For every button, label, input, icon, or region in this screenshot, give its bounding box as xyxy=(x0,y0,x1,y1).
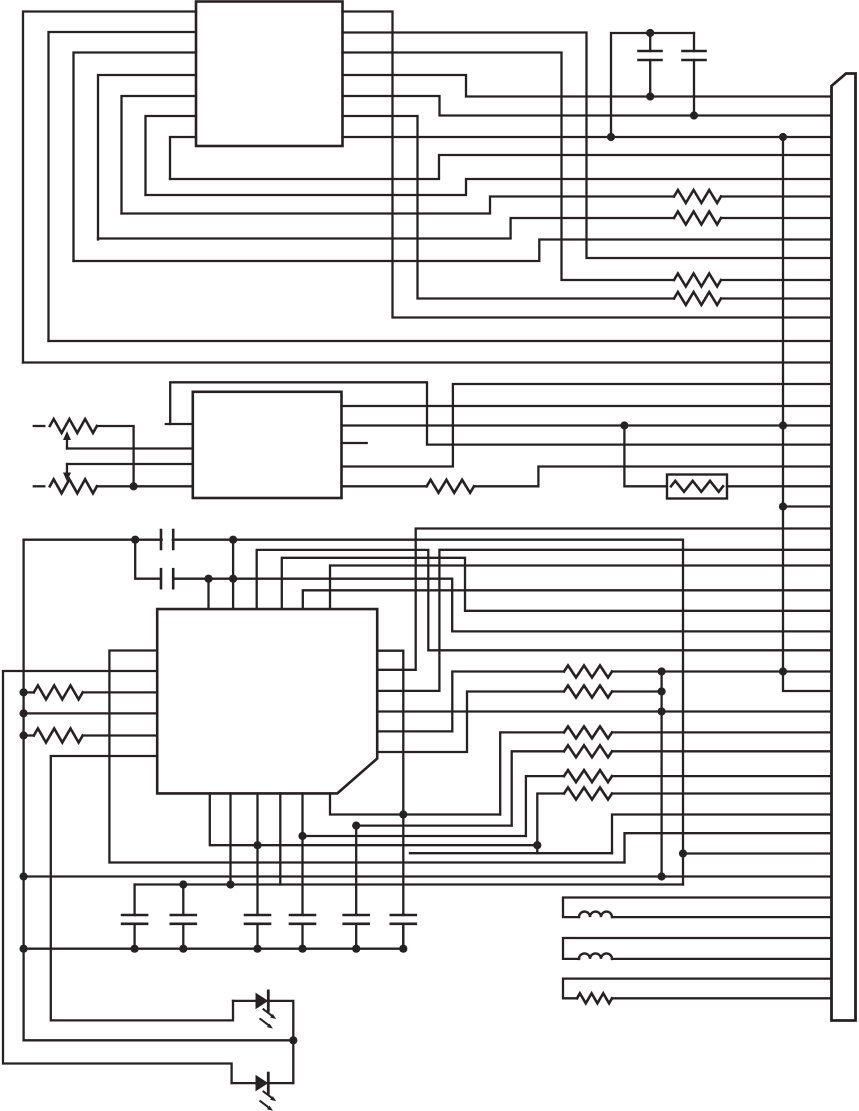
resistor R2 xyxy=(674,212,721,225)
capacitor C7 plates xyxy=(245,915,270,949)
wire cap net top rail xyxy=(611,33,694,137)
capacitor C3 xyxy=(161,530,173,549)
node rail row876 dot xyxy=(20,872,28,880)
wire row853 link xyxy=(410,852,612,854)
wire pin230 lead xyxy=(229,793,231,884)
inductor L2 xyxy=(579,953,612,959)
wire U1 left pin 7 U-loop xyxy=(170,137,196,179)
wire branch row425 down to R6 xyxy=(624,426,667,487)
wire row814 riser to connector xyxy=(612,815,832,854)
wire R1 right lead xyxy=(721,195,832,197)
node Va row876 dot xyxy=(658,872,666,880)
wire R4 right lead xyxy=(721,297,832,299)
wire U1 pin R3 route xyxy=(343,53,675,281)
node cap2 row884 dot xyxy=(179,880,187,888)
wire R12 row and down-leg xyxy=(537,794,564,854)
IC U3 (main processor) xyxy=(157,609,377,793)
wire cap bank ground rail xyxy=(24,948,404,950)
wire R6 right lead xyxy=(727,485,832,487)
wire U2 pin y486 lead xyxy=(342,485,427,487)
capacitor C1 xyxy=(639,33,662,97)
wire R7 right lead xyxy=(612,670,832,672)
resistor R4 xyxy=(674,292,721,305)
wire row814 pin330 to R9 leg xyxy=(330,793,500,814)
wire U2 pin stub right y443 xyxy=(342,442,367,444)
wire U3 top pin x330 row565 xyxy=(330,566,832,610)
wire U3 right pin p5 up to row671 xyxy=(377,672,564,732)
node C2 bottom on row115 xyxy=(690,111,698,119)
wire U1 pin R5 route xyxy=(343,96,832,116)
node C3 row dot x233 xyxy=(229,536,237,544)
potentiometer VR1 body xyxy=(50,419,97,433)
wire U2 pin stub left y424 xyxy=(166,423,193,425)
wire R14 rail stub xyxy=(24,734,34,736)
led D2 xyxy=(256,1073,269,1093)
resistor R14 lead xyxy=(83,734,158,736)
capacitor C10 plates xyxy=(391,915,416,949)
node R13 rail dot xyxy=(20,688,28,696)
node C10 rail dot xyxy=(399,945,407,953)
wire U3 right pin p2 up to row528 xyxy=(377,529,831,670)
wire hairpin L2 xyxy=(563,938,832,959)
wire U3 right pin p6 up to row691 xyxy=(377,692,564,753)
wire hairpin L1 xyxy=(563,898,832,918)
wire R8 right lead xyxy=(612,690,662,692)
wire U2 pin row y406 to connector xyxy=(342,405,832,407)
wire R2 right lead xyxy=(721,217,832,219)
node cap5 top dot xyxy=(352,822,360,830)
wire C3 gap mask xyxy=(163,537,172,543)
node Va row712 dot xyxy=(658,707,666,715)
led D1 xyxy=(256,991,269,1011)
wire cap5 top row825 xyxy=(356,824,512,826)
wire rail bottom row1040 xyxy=(24,1039,294,1041)
wire U1 pin R1 route xyxy=(343,12,832,318)
capacitor C5 plates xyxy=(122,915,147,949)
node C5 rail dot xyxy=(131,945,139,953)
wire pin209 row845 xyxy=(210,793,538,845)
wire cap6 lead bottom xyxy=(402,924,404,949)
wire cap2 lead xyxy=(182,885,184,916)
wire U1 left pin 5 U-loop xyxy=(122,96,197,214)
resistor R1 xyxy=(674,190,721,203)
node VR1 to row486 xyxy=(130,482,138,490)
wire cap3 lead xyxy=(256,793,258,915)
wire row884 cap1-cap2 xyxy=(135,883,683,885)
resistor R5 xyxy=(427,480,474,493)
wire U1 pin R4 route xyxy=(343,75,832,97)
wire U2 pin y466 up-over route xyxy=(342,384,832,467)
node R8 row Va dot xyxy=(658,687,666,695)
wire U3 top pin x302 row590 xyxy=(303,590,832,609)
wire U2 top-left loop xyxy=(170,382,831,444)
wire R11 right lead xyxy=(612,775,832,777)
resistor R10 xyxy=(564,745,612,757)
resistor R15 xyxy=(577,993,612,1003)
wire cap4 pin lead xyxy=(301,793,303,915)
wire cap5 lead xyxy=(355,826,357,915)
wire R15 right lead xyxy=(612,997,832,999)
wire R9 row and down-leg xyxy=(500,732,564,814)
node C7 rail dot xyxy=(253,945,261,953)
capacitor C9 plates xyxy=(344,915,369,949)
wire C3 supply row xyxy=(24,540,683,885)
node R12 leg row845 dot xyxy=(533,841,541,849)
potentiometer VR1 wiper arrow xyxy=(63,431,71,449)
wire staircase step y213 to y196 xyxy=(122,197,675,214)
node pin230 row884 dot xyxy=(226,880,234,888)
wire U3 left pin y713 xyxy=(24,712,158,714)
wire U3 top pin x256 down-route to row650 xyxy=(257,550,832,650)
resistor R13 lead xyxy=(83,691,158,693)
wire row854 from C3 drop to connector xyxy=(683,852,832,854)
wire U1 pin R2 route xyxy=(343,33,832,259)
wire U3 left pin y756 to LED1 feed xyxy=(51,756,233,1020)
capacitor C8 plates xyxy=(290,915,315,949)
wire U3 left pin y650 loop xyxy=(109,651,624,863)
wire U1 pin R6 route xyxy=(343,116,675,299)
wire U3 top pin x208 xyxy=(207,579,209,609)
wire D1 cathode down xyxy=(268,1001,293,1083)
node bus top on row137 xyxy=(779,133,787,141)
IC U1 (top controller) xyxy=(196,2,343,147)
wire VR1 wiper row to U2 xyxy=(67,447,193,449)
node C1 bottom on row96 xyxy=(646,92,654,100)
node cap4 row836 dot xyxy=(298,832,306,840)
node p1 row814 dot xyxy=(399,810,407,818)
potentiometer VR2 wiper arrow xyxy=(63,464,71,482)
wire U1 left pin 2 U-loop xyxy=(49,32,197,341)
led D2 arrows xyxy=(260,1092,276,1111)
node R7 row Va dot xyxy=(658,667,666,675)
node C3 row dot x135 xyxy=(131,536,139,544)
node bus row506 xyxy=(779,502,787,510)
node cap net junction C1 top xyxy=(646,29,654,37)
led D2 wire xyxy=(232,1082,256,1084)
wire vertical Va bus xyxy=(660,672,662,877)
node C4 row pin233 dot xyxy=(229,575,237,583)
node C4 row pin208 dot xyxy=(204,575,212,583)
node row425 bus junction xyxy=(779,421,787,429)
resistor R11 xyxy=(564,770,612,782)
connector J1 xyxy=(832,74,856,1021)
wire R9 right lead xyxy=(612,731,832,733)
wire U3 top pin x281 route to row611 xyxy=(282,558,832,611)
capacitor C4 xyxy=(161,569,173,588)
wire row836 to R11 leg xyxy=(303,835,526,837)
resistor R7 xyxy=(564,666,612,678)
wire U3 right pin p1 to cap6 xyxy=(377,651,403,915)
wire R10 right lead xyxy=(612,750,832,752)
wire hairpin L3 xyxy=(563,979,832,999)
wire cap C4 row xyxy=(135,540,159,579)
inductor L1 xyxy=(579,912,612,918)
wire R10 row and down-leg xyxy=(512,751,564,825)
node C8 rail dot xyxy=(298,945,306,953)
wire R5 to step up xyxy=(474,467,832,487)
node C3 net dot row853 xyxy=(679,849,687,857)
wire VR2 wiper row to U2 xyxy=(67,463,193,465)
node C9 rail dot xyxy=(352,945,360,953)
wire U2 pin row y425.5 to connector xyxy=(342,424,832,426)
wire L2 right lead xyxy=(612,958,832,960)
wire staircase step y195 to y179 xyxy=(146,179,832,195)
wire staircase step y238 to y218 xyxy=(98,218,674,239)
IC U2 (driver) xyxy=(193,392,342,498)
potentiometer VR2 body xyxy=(50,479,97,493)
wire U3 right pin p4 row711 to connector xyxy=(377,710,831,712)
wire U1 left pin 1 U-loop xyxy=(23,12,196,363)
wire staircase step y261 to y239 xyxy=(74,240,832,262)
led D1 arrows xyxy=(260,1009,276,1028)
wire bus branch row506 to connector xyxy=(783,505,832,507)
wire R12 right lead xyxy=(612,792,832,794)
capacitor C2 xyxy=(683,33,706,116)
node cap3 row845 dot xyxy=(253,841,261,849)
capacitor C6 plates xyxy=(171,915,196,949)
led D1 wire xyxy=(233,1000,256,1002)
wire row549.8 to connector from p3 riser xyxy=(377,550,831,691)
node cap net left on row137 xyxy=(607,133,615,141)
wire VR1 right lead down xyxy=(97,426,134,486)
wire VR2 lead to U2 xyxy=(97,485,193,487)
resistor R9 xyxy=(564,726,612,738)
potentiometer VR1 terminal dash xyxy=(34,425,45,427)
wire C4 row right xyxy=(175,579,832,632)
wire U1 left pin 3 U-loop xyxy=(74,53,197,262)
resistor R6 boxed xyxy=(667,475,727,499)
node C6 rail dot xyxy=(179,945,187,953)
wire pin280 lead xyxy=(279,793,281,884)
wire row876 rail to connector xyxy=(24,875,832,877)
wire row833 riser to connector xyxy=(625,833,832,862)
wire R11 row and down-leg xyxy=(526,776,564,836)
node R14 rail dot xyxy=(20,731,28,739)
node D-common row1040 xyxy=(289,1036,297,1044)
wire staircase step y179 to y155 xyxy=(170,155,832,179)
wire R13 rail stub xyxy=(24,691,34,693)
resistor R13 xyxy=(34,685,83,699)
wire U1 left pin 6 U-loop xyxy=(146,116,197,195)
resistor R8 xyxy=(564,686,612,698)
wire U3 left pin y671 to left rail xyxy=(3,671,232,1083)
wire nest row y362 to connector xyxy=(23,361,832,363)
node rail948 left dot xyxy=(20,945,28,953)
wire U1 left pin 4 U-loop xyxy=(98,75,196,240)
potentiometer VR2 terminal dash xyxy=(34,485,45,487)
node row425 branch xyxy=(620,421,628,429)
wire L1 right lead xyxy=(612,916,832,918)
wire nest row y341 to connector xyxy=(49,340,832,342)
wire U1 pin R7 row y137 to connector xyxy=(343,136,832,138)
resistor R14 xyxy=(34,729,83,743)
node pin713 rail dot xyxy=(20,709,28,717)
wire bus x783 xyxy=(783,137,832,691)
resistor R12 xyxy=(564,788,612,800)
wire D2 cathode xyxy=(268,1082,293,1084)
wire U3 top pin x233 xyxy=(232,540,234,609)
wire left rail x24 xyxy=(22,540,24,1041)
wire cap1 lead xyxy=(133,885,135,916)
node bus row672 xyxy=(779,667,787,675)
wire R3 right lead xyxy=(721,279,832,281)
resistor R3 xyxy=(674,274,721,287)
